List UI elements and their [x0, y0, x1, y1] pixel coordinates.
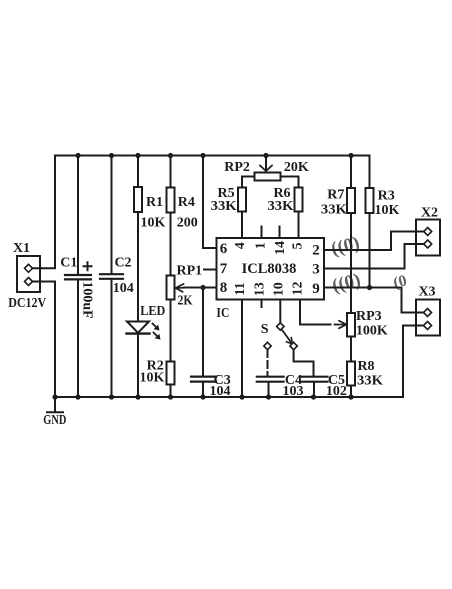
- junction pin6 column top: [200, 153, 205, 158]
- svg-text:((0): ((0): [330, 269, 363, 296]
- svg-text:IC: IC: [216, 306, 229, 321]
- connector X1: [17, 256, 41, 292]
- resistor R4 200: [167, 156, 175, 276]
- wire pin 3 to X2 lower: [324, 244, 424, 269]
- junction LED bottom: [135, 394, 140, 399]
- junction R1 top: [135, 153, 140, 158]
- svg-text:6: 6: [220, 241, 228, 257]
- junction C5 bottom: [311, 394, 316, 399]
- svg-text:R7: R7: [327, 187, 344, 202]
- svg-text:2: 2: [312, 242, 320, 258]
- svg-text:103: 103: [283, 384, 304, 399]
- svg-text:2K: 2K: [178, 293, 193, 308]
- pin 1 stub: [261, 227, 263, 239]
- wire pin 2 to X2 upper: [324, 232, 424, 251]
- connector X2: [415, 220, 440, 256]
- label 100uF: [80, 281, 95, 318]
- faint watermark: [321, 224, 408, 307]
- svg-text:RP3: RP3: [356, 309, 382, 324]
- junction R3 / pin9 wire: [367, 285, 372, 290]
- wire X3 lower to ground rail: [403, 326, 424, 398]
- svg-text:200: 200: [177, 215, 198, 230]
- resistor R2 10K: [167, 362, 175, 398]
- potentiometer RP2 20K: [242, 156, 299, 188]
- svg-text:(0: (0: [392, 272, 409, 292]
- resistor R1 10K: [134, 156, 142, 322]
- svg-text:X2: X2: [421, 206, 438, 221]
- svg-text:33K: 33K: [357, 373, 383, 388]
- svg-text:20K: 20K: [284, 160, 309, 175]
- svg-text:R8: R8: [357, 359, 374, 374]
- svg-text:3: 3: [312, 261, 320, 277]
- resistor R5 33K: [238, 188, 246, 239]
- pin number 11: [233, 282, 248, 295]
- svg-text:104: 104: [210, 384, 231, 399]
- svg-text:10K: 10K: [140, 370, 165, 385]
- ground GND stub: [54, 397, 56, 411]
- svg-text:LED: LED: [140, 304, 165, 319]
- pin number 12: [291, 282, 306, 296]
- svg-text:33K: 33K: [321, 202, 347, 217]
- svg-text:RP2: RP2: [224, 160, 250, 175]
- wire V+ top rail: [55, 155, 370, 157]
- svg-text:100K: 100K: [356, 323, 388, 338]
- potentiometer RP1 2K: [167, 276, 217, 362]
- wire ground bottom rail: [55, 396, 403, 398]
- junction R7 top: [348, 153, 353, 158]
- junction RP2 wiper top: [263, 153, 268, 158]
- pin 11 wire to ground rail: [241, 300, 243, 398]
- junction C2 top: [109, 153, 114, 158]
- svg-text:ICL8038: ICL8038: [242, 261, 297, 277]
- wire left rail to X1 pin1: [31, 156, 55, 269]
- junction R4 top: [168, 153, 173, 158]
- svg-text:14: 14: [273, 241, 288, 255]
- capacitor C5 102: [302, 377, 328, 397]
- capacitor C4 103: [257, 377, 284, 397]
- junction R8 bottom: [348, 394, 353, 399]
- svg-text:10K: 10K: [374, 203, 399, 218]
- pin 10 wire to switch: [279, 300, 281, 323]
- capacitor C3 104: [191, 288, 216, 398]
- wire pin7 stub: [204, 269, 217, 271]
- svg-text:7: 7: [220, 261, 228, 277]
- svg-text:33K: 33K: [211, 199, 237, 214]
- resistor R8 33K: [347, 362, 355, 398]
- pin number 5: [291, 243, 306, 250]
- svg-text:X3: X3: [418, 284, 435, 299]
- junction C3 bottom: [200, 394, 205, 399]
- svg-text:9: 9: [312, 281, 320, 297]
- svg-text:12: 12: [291, 282, 306, 296]
- junction GND corner: [52, 394, 57, 399]
- svg-text:8: 8: [220, 280, 228, 296]
- svg-text:S: S: [261, 322, 269, 337]
- svg-text:100uF: 100uF: [80, 281, 95, 318]
- wire X1 pin2 to ground rail: [31, 282, 55, 398]
- capacitor C1 (100uF polarized): [65, 156, 91, 398]
- junction C1 bottom: [75, 394, 80, 399]
- svg-text:R4: R4: [178, 195, 195, 210]
- connector X3: [415, 300, 440, 336]
- capacitor C2 (104): [100, 156, 123, 398]
- pin number 1: [254, 242, 269, 249]
- svg-text:102: 102: [326, 384, 347, 399]
- svg-text:X1: X1: [13, 241, 30, 256]
- resistor R6 33K: [295, 188, 303, 239]
- svg-text:DC12V: DC12V: [8, 296, 46, 311]
- svg-text:13: 13: [253, 282, 268, 296]
- svg-text:((0): ((0): [329, 233, 362, 260]
- wire pin6 column to top rail: [203, 156, 217, 249]
- wire pin 9 to X3 upper: [324, 288, 424, 313]
- junction pin8 / C3: [200, 285, 205, 290]
- pin number 14: [273, 241, 288, 255]
- svg-text:5: 5: [291, 243, 306, 250]
- ground symbol bar: [47, 411, 63, 413]
- pin number 10: [272, 282, 287, 296]
- svg-text:R1: R1: [146, 195, 163, 210]
- junction C4 bottom: [266, 394, 271, 399]
- svg-text:10K: 10K: [141, 215, 166, 230]
- svg-text:10: 10: [272, 282, 287, 296]
- svg-text:1: 1: [254, 242, 269, 249]
- svg-text:104: 104: [113, 281, 134, 296]
- svg-text:C1: C1: [60, 256, 77, 271]
- potentiometer RP3 100K: [347, 313, 355, 362]
- svg-text:GND: GND: [43, 413, 66, 428]
- junction pin11 bottom: [239, 394, 244, 399]
- resistor R3 10K: [366, 156, 374, 288]
- svg-text:RP1: RP1: [176, 263, 202, 278]
- resistor R7 33K: [347, 156, 355, 314]
- pin 14 stub: [279, 227, 281, 239]
- pin number 4: [233, 242, 248, 249]
- pin 13 stub: [261, 300, 263, 308]
- LED: [127, 322, 160, 398]
- svg-text:C2: C2: [114, 256, 131, 271]
- label C1 plus: [83, 261, 93, 271]
- pin 12 wire to RP3 wiper: [300, 300, 347, 329]
- svg-text:4: 4: [233, 242, 248, 249]
- junction C2 bottom: [109, 394, 114, 399]
- junction R2 bottom: [168, 394, 173, 399]
- junction C1 top: [75, 153, 80, 158]
- switch S: [264, 323, 314, 376]
- svg-text:33K: 33K: [268, 199, 294, 214]
- svg-text:R3: R3: [378, 188, 395, 203]
- pin number 13: [253, 282, 268, 296]
- svg-text:11: 11: [233, 282, 248, 295]
- op-amp IC U1 ICL8038 body: [217, 238, 325, 300]
